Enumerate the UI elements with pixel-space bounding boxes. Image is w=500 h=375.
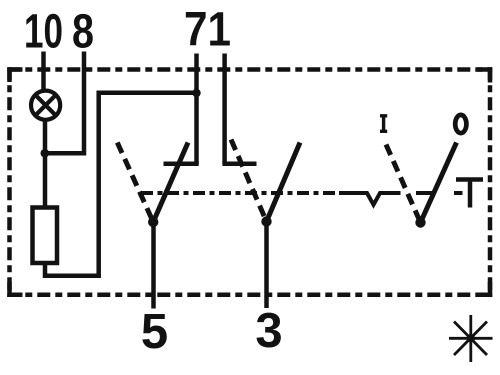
indicator lamp L1 circle	[31, 91, 60, 120]
latch T stem	[468, 180, 473, 208]
wire resistor bottom loop to node B	[45, 93, 197, 276]
asterisk mark diagonal 1	[454, 322, 487, 356]
enclosure dashed border top	[7, 67, 492, 72]
svg-text:8: 8	[72, 6, 94, 59]
svg-text:3: 3	[255, 304, 282, 358]
switch S0 pivot dot	[415, 217, 425, 227]
enclosure dashed border bottom	[7, 292, 492, 297]
mechanical linkage line	[141, 191, 336, 195]
switch S3 dashed arm	[231, 140, 267, 222]
resistor R1	[33, 208, 58, 264]
junction dot A	[41, 149, 50, 158]
fixed contact bar 1	[222, 161, 256, 166]
asterisk mark center dot	[467, 334, 475, 342]
border corner bottom-right	[477, 282, 490, 295]
indicator lamp L1 cross	[35, 95, 56, 116]
wire lamp to junction A	[43, 120, 48, 156]
border corner bottom-left	[10, 282, 23, 295]
switch S3 solid arm	[267, 143, 301, 222]
wire terminal 10	[41, 52, 46, 93]
detent notch	[339, 193, 401, 205]
border corner top-left	[10, 70, 23, 83]
switch S5 dashed arm	[117, 143, 153, 223]
switch S5 solid arm	[153, 143, 188, 223]
switch S0 dashed arm	[386, 145, 421, 223]
position label 0	[455, 115, 466, 133]
position label I	[380, 116, 387, 132]
asterisk mark diagonal 2	[454, 322, 487, 356]
wire terminal 3	[264, 222, 269, 309]
wire terminal 8	[45, 52, 84, 154]
wire terminal 1	[222, 54, 227, 164]
mechanical linkage dash b	[454, 191, 463, 195]
wire terminal 7	[194, 54, 199, 164]
svg-text:71: 71	[184, 4, 231, 57]
switch S0 solid arm	[421, 143, 457, 223]
border corner top-right	[477, 70, 490, 83]
fixed contact bar 7	[164, 161, 199, 166]
mechanical linkage dash a	[416, 191, 432, 195]
svg-text:10: 10	[24, 6, 63, 59]
switch S5 pivot dot	[148, 217, 158, 227]
junction dot B	[192, 89, 200, 97]
wire terminal 5	[151, 222, 156, 309]
asterisk mark horizontal	[449, 337, 493, 340]
enclosure dashed border left	[7, 67, 12, 297]
wire junction A to resistor	[43, 153, 48, 208]
enclosure dashed border right	[488, 67, 493, 297]
svg-text:5: 5	[141, 305, 168, 359]
switch S3 pivot dot	[261, 216, 271, 226]
asterisk mark vertical	[469, 315, 472, 362]
latch T bar	[456, 177, 483, 182]
